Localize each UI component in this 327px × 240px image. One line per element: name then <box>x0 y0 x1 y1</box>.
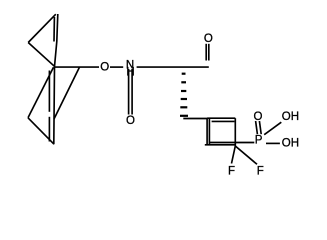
wire fluorene edge B-V <box>54 67 80 119</box>
ring benzene bottom outer <box>205 144 236 146</box>
wire bond A-CH2-O <box>54 66 99 68</box>
svg-text:O: O <box>254 111 263 123</box>
svg-text:O: O <box>204 33 213 45</box>
wire bond P-OH right <box>266 142 280 144</box>
svg-text:F: F <box>228 166 235 178</box>
svg-text:H: H <box>126 67 134 79</box>
wire bond CH2-ring <box>183 118 207 120</box>
wire fluorene edge L2-B2 <box>28 118 54 144</box>
wire bond O-N <box>110 66 123 68</box>
wire fluorene ring1 edge L1-A <box>28 43 54 67</box>
hashed wedge alpha carbon <box>180 74 188 116</box>
svg-text:F: F <box>257 166 264 178</box>
wire fluorene ring2 inner double bond lower <box>48 117 50 142</box>
ring benzene left inner double <box>208 119 210 145</box>
wire benzene bottom inner + bond to P <box>209 142 254 144</box>
svg-text:P: P <box>255 135 263 147</box>
ring benzene left outer <box>206 118 208 145</box>
wire C=O carbonyl double bond line 2 <box>208 44 210 61</box>
wire fluorene ring1 inner double bond <box>53 17 55 42</box>
ring benzene top outer <box>207 117 235 119</box>
svg-text:OH: OH <box>282 111 299 123</box>
wire P=O double bond line 2 <box>259 121 261 134</box>
wire fluorene ring2 inner double bond upper <box>48 71 50 112</box>
wire bond N-C(=O) backbone <box>137 66 209 68</box>
wire fluorene ring1 edge T-L1 <box>28 14 56 42</box>
wire bond C-F2 diagonal <box>236 146 257 164</box>
svg-text:OH: OH <box>282 138 299 150</box>
ring benzene top inner double <box>212 120 235 122</box>
wire fluorene edge A-L2 <box>28 67 54 118</box>
wire bond P-OH upper <box>264 122 281 135</box>
wire bond C-F1 <box>232 146 236 164</box>
svg-text:O: O <box>126 115 135 127</box>
wire N=O double bond line 2 <box>131 69 133 115</box>
wire C=O carbonyl double bond line 1 <box>205 44 207 61</box>
wire fluorene outer vertical T-A-B2 <box>54 14 58 144</box>
wire P=O double bond line 1 <box>256 121 258 134</box>
ring benzene right edge <box>234 118 236 146</box>
svg-text:O: O <box>100 62 109 74</box>
wire N=O double bond line 1 <box>128 69 130 115</box>
